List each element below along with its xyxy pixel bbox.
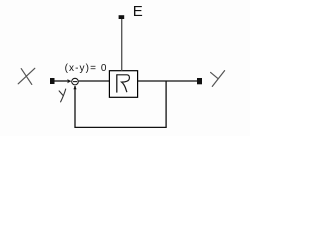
svg-text:E: E (133, 3, 143, 20)
svg-text:(x-y)= 0: (x-y)= 0 (65, 63, 108, 74)
